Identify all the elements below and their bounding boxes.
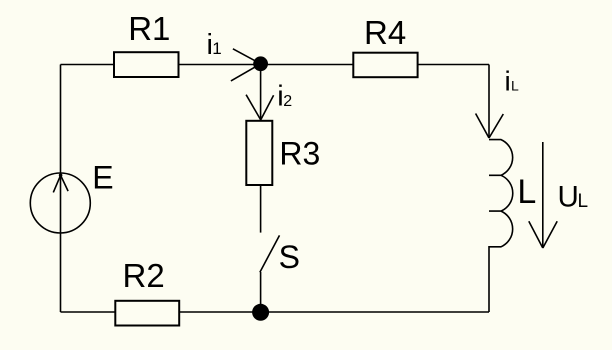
svg-text:2: 2: [283, 93, 292, 110]
svg-text:E: E: [92, 160, 113, 196]
svg-text:1: 1: [212, 39, 221, 58]
svg-text:R1: R1: [128, 10, 170, 47]
svg-text:R4: R4: [364, 14, 406, 51]
svg-text:L: L: [517, 173, 536, 211]
svg-text:S: S: [279, 239, 300, 275]
svg-text:L: L: [511, 77, 519, 93]
svg-text:R2: R2: [123, 257, 165, 294]
svg-text:R3: R3: [279, 136, 320, 172]
svg-text:L: L: [578, 191, 589, 212]
svg-text:i: i: [505, 65, 511, 96]
svg-text:U: U: [558, 181, 579, 214]
